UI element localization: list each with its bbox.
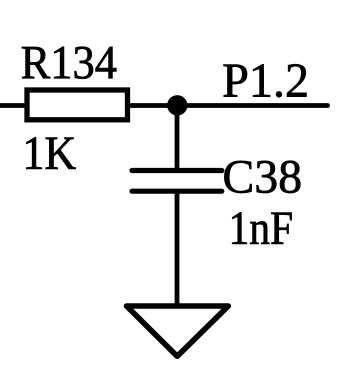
wire: capacitor to ground bbox=[175, 191, 180, 306]
wire: node down to capacitor C38 bbox=[175, 105, 180, 173]
ground symbol bbox=[127, 306, 229, 356]
label net P1.2 bbox=[224, 64, 307, 97]
label C38 (designator) bbox=[224, 161, 300, 193]
resistor R134 body bbox=[27, 90, 128, 120]
label R134 (designator) bbox=[22, 47, 116, 79]
node junction dot bbox=[167, 95, 187, 115]
capacitor C38 top plate bbox=[132, 168, 222, 173]
label 1K (value) bbox=[26, 137, 75, 169]
wire: input stub to resistor R134 bbox=[0, 103, 29, 108]
label 1nF (value) bbox=[232, 212, 291, 244]
wire: resistor to node and net P1.2 bbox=[128, 103, 328, 108]
capacitor C38 bottom plate bbox=[132, 189, 222, 194]
